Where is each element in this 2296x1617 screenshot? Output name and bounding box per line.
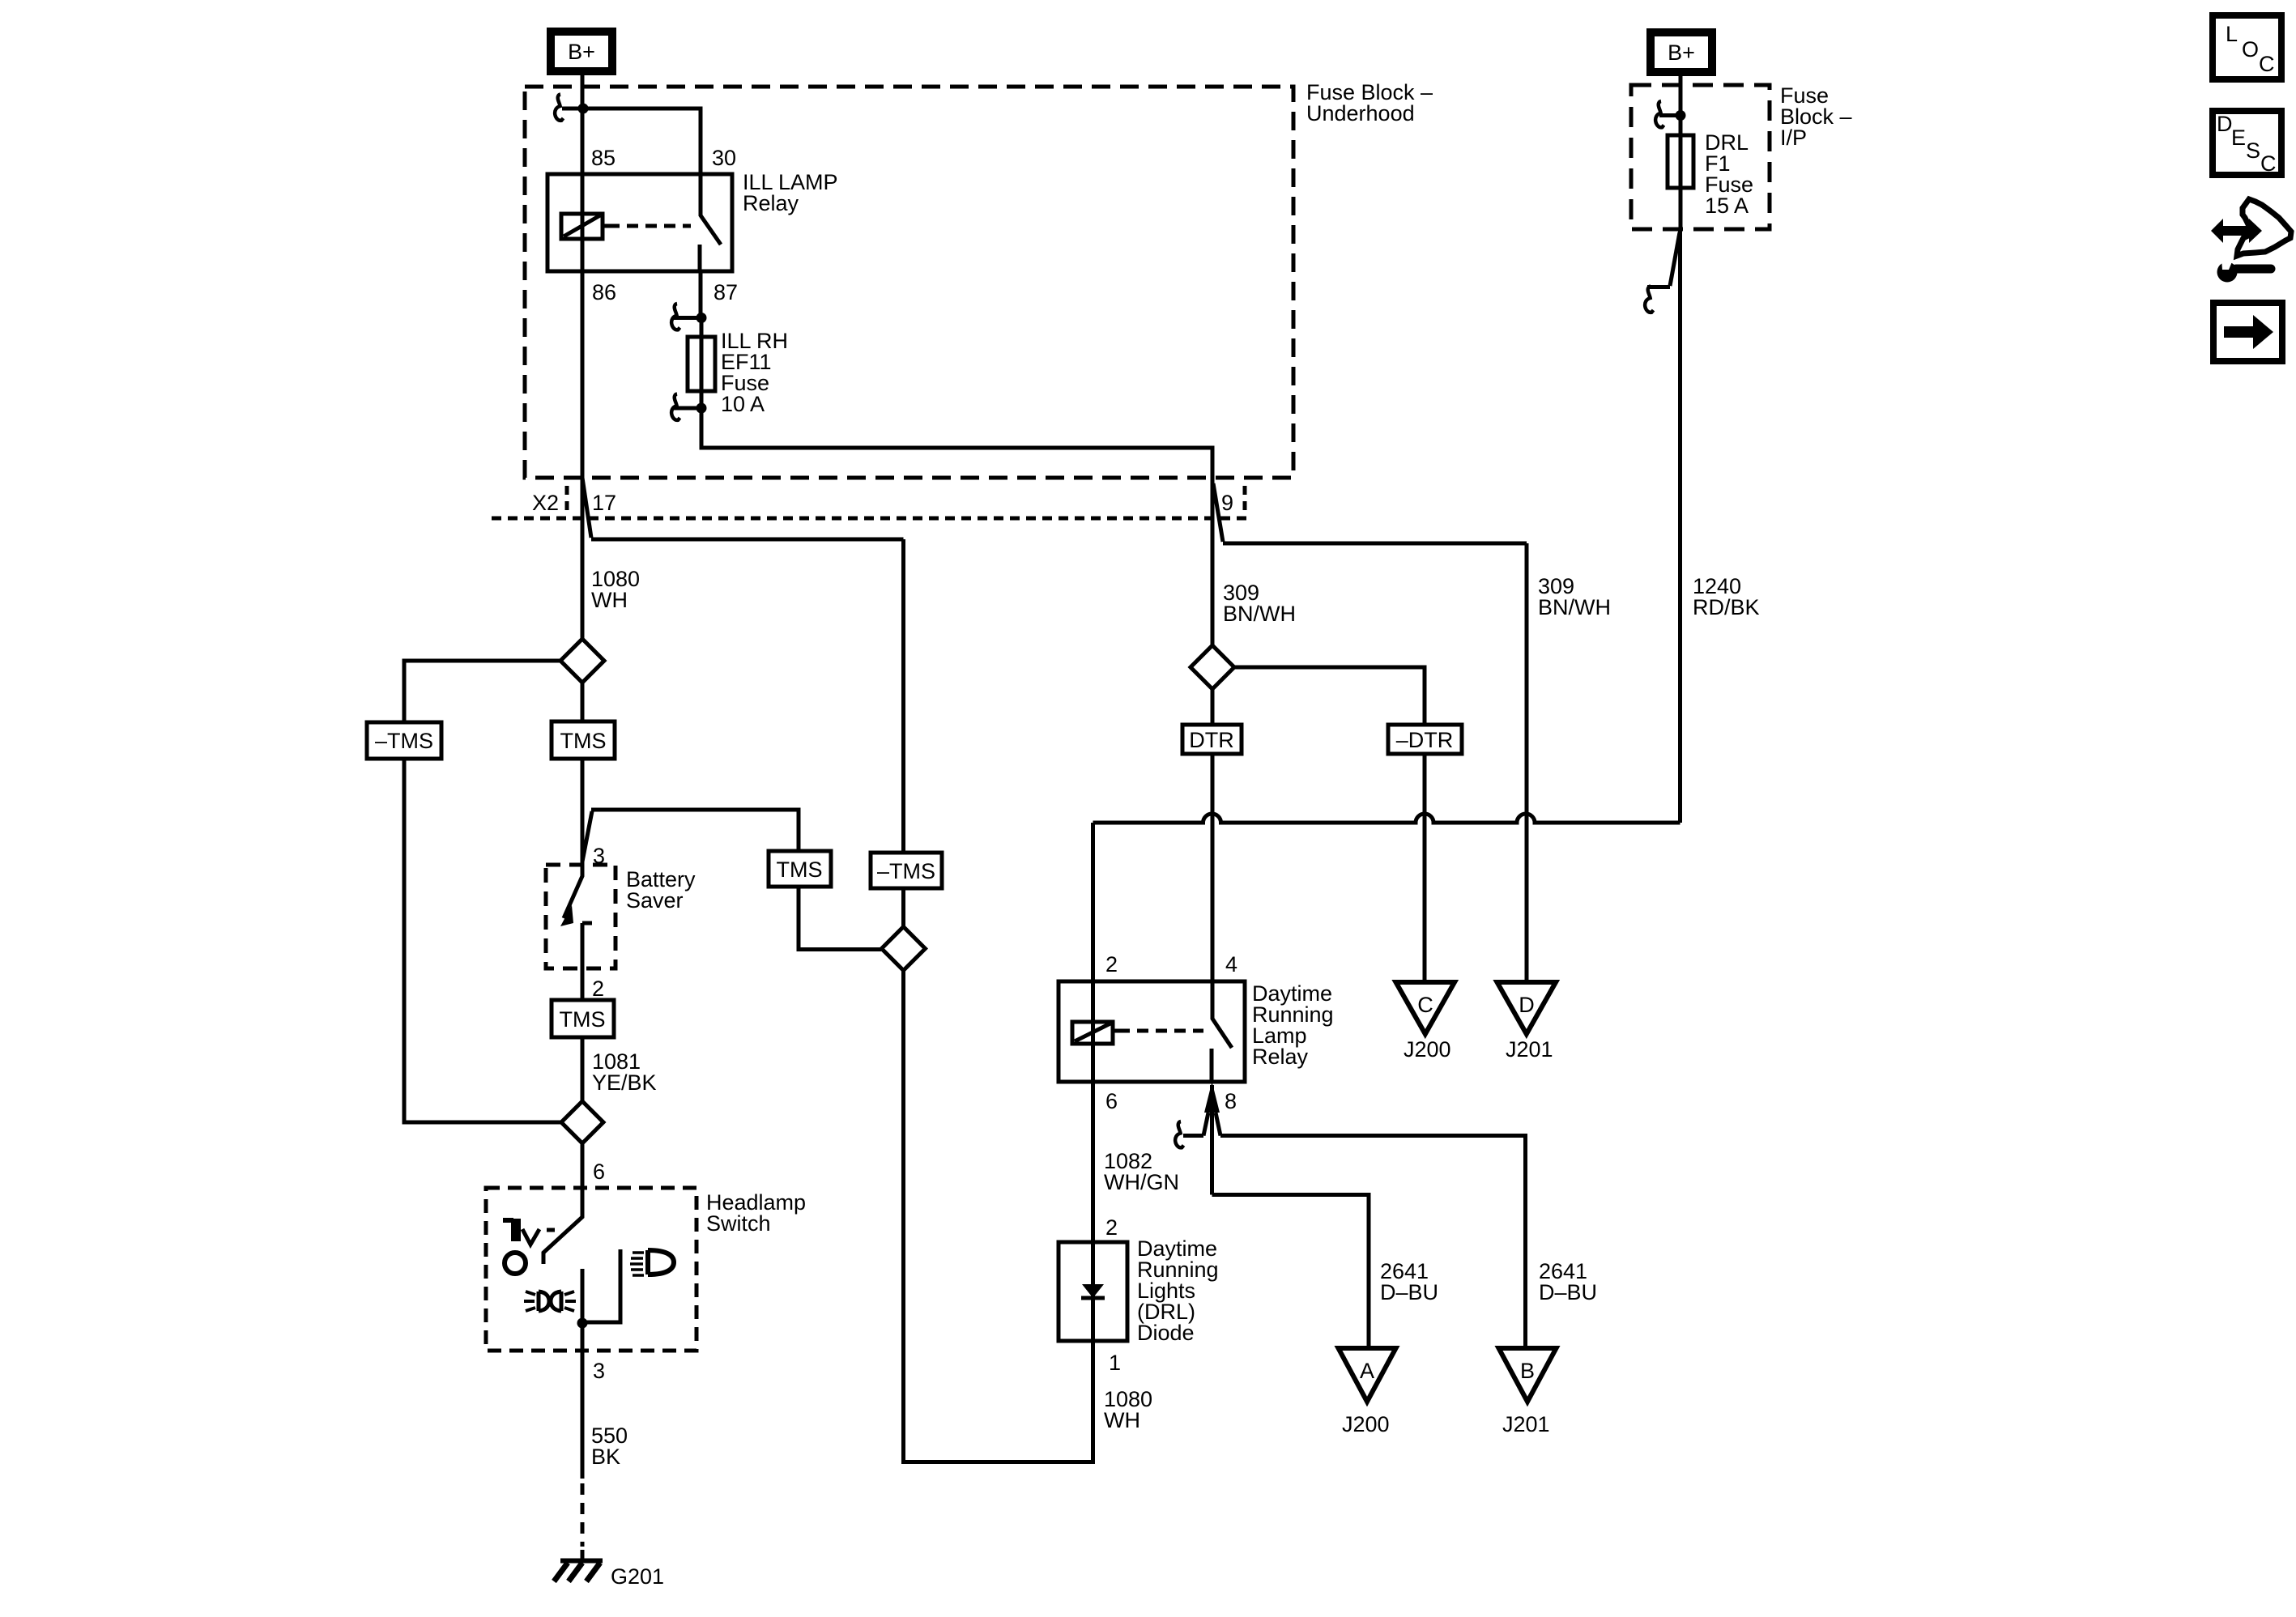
ILL LAMP relay box <box>547 174 732 271</box>
svg-text:S: S <box>2246 138 2260 163</box>
svg-text:B+: B+ <box>568 40 595 64</box>
bus wire with hops <box>1093 814 1680 823</box>
TMS box (left) <box>552 721 615 759</box>
svg-text:8: 8 <box>1225 1089 1237 1113</box>
svg-text:TMS: TMS <box>777 857 823 882</box>
wire -TMS down to headlamp diamond <box>404 759 561 1122</box>
relay lower contact pin 87 <box>698 245 702 271</box>
wire TMS to battery saver <box>581 759 585 865</box>
wire 309 BN/WH down to connector D <box>1525 543 1529 982</box>
DRL diode box <box>1059 1242 1127 1341</box>
junction dot headlamp <box>577 1318 588 1329</box>
svg-text:BK: BK <box>591 1445 620 1469</box>
svg-text:O: O <box>2242 37 2259 62</box>
Battery Saver dashed box <box>546 865 616 968</box>
connector strip divider after X2 <box>565 486 569 517</box>
wire diamond to headlamp switch pin 6 <box>581 1143 585 1188</box>
ground G201 <box>581 1550 585 1561</box>
TMS box (third) <box>552 1000 614 1037</box>
svg-text:B+: B+ <box>1668 40 1695 65</box>
LOC icon box <box>2213 15 2281 79</box>
svg-text:BN/WH: BN/WH <box>1538 595 1611 619</box>
relay switch blade pin 30 <box>701 174 721 245</box>
Fuse Block - I/P dashed box <box>1631 85 1770 229</box>
connector curl at B+ junction <box>555 95 563 121</box>
svg-text:6: 6 <box>593 1160 605 1184</box>
svg-text:L: L <box>2226 22 2238 46</box>
splice diamond 1081 YE/BK <box>561 1101 603 1143</box>
svg-text:C: C <box>2259 52 2275 76</box>
svg-text:G201: G201 <box>611 1564 664 1589</box>
battery saver lower contact <box>582 921 592 926</box>
svg-text:85: 85 <box>591 146 616 170</box>
connector curl above fuse <box>671 304 679 330</box>
svg-text:6: 6 <box>1105 1089 1118 1113</box>
junction dot above fuse <box>696 313 707 323</box>
branch wire to -TMS leg <box>591 538 904 542</box>
relay coil-switch dashed link <box>608 224 691 228</box>
DTR box <box>1182 725 1242 754</box>
svg-text:J201: J201 <box>1506 1037 1553 1062</box>
headlamp switch center contact <box>581 1269 585 1323</box>
splice diamond 309 BN/WH <box>1191 645 1234 689</box>
wire 1240 RD/BK vertical <box>1678 229 1682 823</box>
svg-text:TMS: TMS <box>560 1007 606 1032</box>
relay 2 switch blade <box>1212 981 1232 1048</box>
svg-text:DTR: DTR <box>1189 728 1234 752</box>
wire fuse to connector pin 9 <box>701 408 1212 645</box>
svg-text:Relay: Relay <box>743 191 799 215</box>
svg-text:15 A: 15 A <box>1705 194 1749 218</box>
junction dot below fuse <box>696 403 707 414</box>
svg-text:Underhood: Underhood <box>1306 101 1415 126</box>
wire pin 6 to diode <box>1091 1082 1095 1242</box>
OFF position circle <box>505 1253 526 1274</box>
pin 8 wire with arrow <box>1210 1085 1214 1195</box>
bus left leg to relay pin 2 <box>1091 823 1095 981</box>
wire diamond to -DTR <box>1234 667 1425 725</box>
splice diamond 1080 WH <box>560 639 604 683</box>
connector tick below fuse <box>674 406 701 411</box>
connector tick at B+ junction <box>562 107 583 111</box>
svg-text:2: 2 <box>1105 952 1118 977</box>
-TMS box (second) <box>871 853 942 888</box>
-TMS box (left) <box>367 722 441 759</box>
svg-text:Switch: Switch <box>706 1211 771 1236</box>
svg-text:C: C <box>1417 993 1433 1017</box>
branch wire 309 BN/WH right <box>1223 542 1527 546</box>
connector B triangle <box>1499 1348 1557 1402</box>
connector strip divider after pin 9 <box>1243 486 1247 517</box>
connector C triangle <box>1396 982 1455 1034</box>
svg-text:Saver: Saver <box>626 888 684 913</box>
park lamps icon <box>539 1291 549 1311</box>
Headlamp Switch dashed box <box>486 1188 696 1351</box>
diagnostic icon outline shape <box>2237 199 2291 256</box>
junction dot I/P <box>1676 110 1686 121</box>
connector tick above fuse <box>674 316 701 320</box>
ILL RH EF11 fuse <box>688 337 715 391</box>
I/P below-box connector slant <box>1670 232 1680 286</box>
wire pin 8 to connector B <box>1220 1136 1526 1347</box>
svg-text:TMS: TMS <box>560 729 607 753</box>
wire junction to pin 30 <box>581 109 701 174</box>
headlamp switch position icon (off/auto) <box>503 1218 513 1223</box>
svg-text:WH/GN: WH/GN <box>1104 1170 1179 1194</box>
svg-text:J200: J200 <box>1404 1037 1451 1062</box>
battery saver switch arrowhead <box>560 905 573 926</box>
connector curl below fuse <box>671 394 679 420</box>
svg-text:–TMS: –TMS <box>375 729 433 753</box>
wire diamond to DTR <box>1211 689 1215 725</box>
wire B+ to relay pin 85 <box>581 71 585 174</box>
pin 9 pass-through slant <box>1213 483 1223 542</box>
B+ terminal (right) <box>1651 32 1712 72</box>
wire diamond to TMS box <box>581 683 585 721</box>
relay 2 coil <box>1072 1022 1113 1044</box>
connector A triangle <box>1339 1348 1396 1402</box>
wire pin 2-6 through relay 2 <box>1091 981 1095 1082</box>
svg-text:RD/BK: RD/BK <box>1693 595 1760 619</box>
svg-text:17: 17 <box>592 491 616 515</box>
pin 17 pass-through slant <box>582 478 591 538</box>
arrow icon box <box>2213 303 2282 361</box>
DRL F1 fuse <box>1668 135 1693 188</box>
junction node dot <box>578 104 589 114</box>
pin 8 connector tick <box>1183 1134 1203 1138</box>
svg-text:87: 87 <box>714 280 738 304</box>
svg-text:C: C <box>2260 151 2277 176</box>
svg-text:X2: X2 <box>532 491 559 515</box>
dashed wire to ground <box>581 1483 585 1547</box>
svg-text:YE/BK: YE/BK <box>592 1070 657 1095</box>
DESC icon box <box>2213 111 2281 175</box>
diagnostic icon wrench <box>2217 262 2238 283</box>
svg-text:–TMS: –TMS <box>877 859 935 883</box>
svg-text:D: D <box>1519 993 1535 1017</box>
battery saver switch <box>564 865 582 918</box>
svg-text:A: A <box>1360 1359 1374 1383</box>
svg-text:9: 9 <box>1221 491 1233 515</box>
pin 8 connector curl <box>1175 1121 1183 1147</box>
svg-text:4: 4 <box>1225 952 1237 977</box>
wire pin 8 to connector A <box>1212 1195 1370 1349</box>
svg-text:2: 2 <box>592 977 604 1001</box>
svg-text:2: 2 <box>1105 1215 1118 1240</box>
svg-text:E: E <box>2231 126 2246 150</box>
wire 1081 YE/BK to diamond <box>581 1037 585 1101</box>
svg-text:Diode: Diode <box>1137 1321 1195 1345</box>
I/P below-box connector tick <box>1647 285 1670 289</box>
diagnostic icon double arrow <box>2211 219 2262 243</box>
svg-text:86: 86 <box>592 280 616 304</box>
Fuse Block - Underhood dashed box <box>525 87 1293 478</box>
-DTR box <box>1388 725 1462 754</box>
svg-text:D–BU: D–BU <box>1539 1280 1597 1304</box>
svg-text:J200: J200 <box>1342 1412 1390 1436</box>
splice diamond -TMS leg <box>882 927 926 971</box>
svg-text:J201: J201 <box>1502 1412 1550 1436</box>
headlamp switch blade <box>543 1188 582 1264</box>
battery saver branch slant <box>582 811 592 862</box>
wire DTR down to relay pin 4 <box>1211 754 1215 981</box>
svg-text:BN/WH: BN/WH <box>1223 602 1296 626</box>
svg-text:3: 3 <box>593 844 605 868</box>
wire pin 87 to fuse <box>699 271 703 317</box>
wire diamond down to 1080 WH return <box>904 971 1093 1462</box>
svg-text:WH: WH <box>591 588 628 612</box>
connector strip bottom dotted line <box>492 517 1247 521</box>
connector curl I/P junction <box>1655 101 1663 127</box>
arrow icon <box>2224 315 2273 349</box>
wire diamond to -TMS box (left leg) <box>404 661 560 722</box>
connector tick I/P junction <box>1659 113 1680 117</box>
wire pin 3 down 550 BK <box>581 1323 585 1479</box>
B+ terminal (left) <box>551 32 612 71</box>
wire second TMS to -TMS diamond <box>799 887 881 950</box>
svg-text:I/P: I/P <box>1780 126 1807 150</box>
wire pin 85-86 through relay <box>581 174 585 271</box>
svg-text:1: 1 <box>1109 1351 1121 1375</box>
relay 2 lower contact <box>1210 1049 1214 1082</box>
relay 2 dashed link <box>1118 1029 1203 1033</box>
relay coil <box>561 214 603 239</box>
svg-text:30: 30 <box>712 146 736 170</box>
pin 8 connector slants <box>1203 1113 1220 1136</box>
svg-text:3: 3 <box>593 1359 605 1383</box>
TMS box (second) <box>769 851 831 887</box>
pin 8 arrowhead <box>1204 1082 1220 1113</box>
branch wire to second TMS <box>591 810 799 851</box>
svg-text:D–BU: D–BU <box>1380 1280 1438 1304</box>
headlamp beam icon <box>648 1250 674 1274</box>
svg-text:WH: WH <box>1104 1408 1140 1432</box>
svg-text:B: B <box>1520 1359 1535 1383</box>
wire -DTR down to connector C <box>1423 754 1427 982</box>
headlamp switch head position contact <box>585 1249 620 1322</box>
svg-text:D: D <box>2217 112 2233 136</box>
connector D triangle <box>1497 982 1557 1034</box>
wire pin 86 down to connector X2-17 <box>581 271 585 640</box>
svg-text:Relay: Relay <box>1252 1045 1309 1069</box>
svg-text:10 A: 10 A <box>721 392 765 416</box>
I/P below-box connector curl <box>1645 287 1653 313</box>
svg-text:–DTR: –DTR <box>1396 728 1454 752</box>
diode symbol <box>1091 1242 1095 1341</box>
wire battery saver to TMS box 3 <box>581 968 585 1000</box>
Daytime Running Lamp Relay box <box>1059 981 1245 1082</box>
wire -TMS leg down through -TMS box <box>901 539 905 853</box>
wire B+ to fuse F1 <box>1679 72 1683 229</box>
